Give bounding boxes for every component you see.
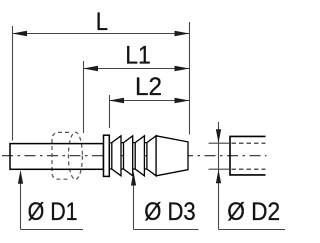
svg-text:L: L (96, 8, 108, 36)
svg-text:Ø D2: Ø D2 (227, 198, 280, 226)
svg-text:Ø D1: Ø D1 (28, 198, 78, 226)
svg-text:L1: L1 (125, 42, 151, 70)
svg-text:L2: L2 (135, 73, 162, 101)
svg-text:Ø D3: Ø D3 (144, 198, 196, 226)
